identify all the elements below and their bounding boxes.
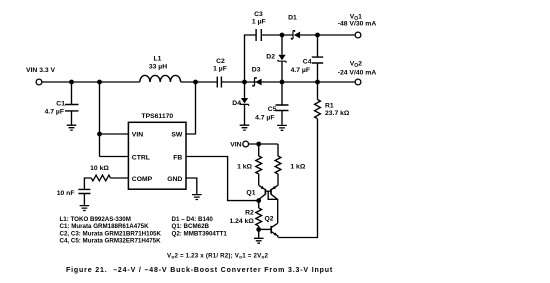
node junction FB/R2/Q1 — [256, 198, 261, 203]
svg-text:VIN: VIN — [230, 142, 241, 149]
svg-text:4.7 µF: 4.7 µF — [291, 67, 310, 74]
wire main rail from VIN to L1 — [42, 81, 140, 83]
svg-text:FB: FB — [173, 154, 182, 161]
svg-text:C2, C3: Murata GRM21BR71H105K: C2, C3: Murata GRM21BR71H105K — [60, 230, 162, 237]
terminal VIN (bias) — [243, 141, 249, 147]
svg-text:GND: GND — [167, 176, 182, 183]
svg-text:23.7 kΩ: 23.7 kΩ — [325, 110, 350, 117]
svg-text:Q2: MMBT3904TT1: Q2: MMBT3904TT1 — [172, 230, 228, 237]
capacitor 10nF — [78, 189, 90, 193]
wire VIN bias rail — [248, 143, 278, 145]
wire SW riser — [186, 82, 196, 134]
svg-text:Vo2 = 1.23 x (R1/ R2); Vo1 = 2: Vo2 = 1.23 x (R1/ R2); Vo1 = 2Vo2 — [167, 253, 269, 261]
svg-text:10 kΩ: 10 kΩ — [90, 165, 109, 172]
node junction at VIN pin — [97, 132, 102, 137]
diode D1 (schottky, pointing left) — [291, 31, 300, 39]
svg-text:1 µF: 1 µF — [252, 19, 266, 26]
svg-text:D2: D2 — [266, 54, 275, 61]
ground below GND pin — [192, 195, 202, 200]
svg-text:D4: D4 — [232, 100, 241, 107]
capacitor C4 — [312, 35, 323, 82]
svg-text:C3: C3 — [254, 11, 263, 18]
svg-text:CTRL: CTRL — [132, 154, 150, 161]
svg-text:COMP: COMP — [132, 176, 153, 183]
ground below C5 — [277, 125, 287, 130]
terminal VO1 — [355, 32, 361, 38]
node junction 4 (C2/D3/D4/riser) — [242, 80, 247, 85]
diode D2 (schottky, pointing down) — [278, 35, 286, 82]
resistor R2 — [256, 201, 262, 230]
svg-text:VIN: VIN — [132, 131, 143, 138]
svg-text:L1: L1 — [154, 56, 162, 63]
node junction D2 bottom — [280, 80, 285, 85]
wire GND pin to ground — [186, 178, 197, 194]
transistor Q2 (NPN) — [259, 223, 278, 237]
svg-text:-48 V/30 mA: -48 V/30 mA — [338, 21, 377, 28]
wire 10nF to ground — [83, 194, 85, 205]
svg-text:4.7 µF: 4.7 µF — [45, 109, 64, 116]
node junction R2/Q2 base/ground — [256, 227, 261, 232]
svg-text:33 µH: 33 µH — [149, 64, 167, 71]
svg-text:TPS61170: TPS61170 — [141, 113, 173, 120]
diode D4 (schottky, pointing down) — [240, 82, 248, 125]
svg-text:L1: TOKO B992AS-330M: L1: TOKO B992AS-330M — [60, 216, 131, 223]
inductor L1 — [140, 75, 181, 82]
ground below C1 — [67, 125, 77, 130]
capacitor C1 — [65, 82, 79, 125]
wire riser to top branch — [245, 35, 257, 82]
capacitor C5 — [276, 82, 289, 125]
svg-text:Q1: BCM62B: Q1: BCM62B — [172, 223, 210, 230]
svg-text:10 nF: 10 nF — [57, 190, 75, 197]
svg-text:R2: R2 — [245, 210, 254, 217]
resistor R1 — [278, 82, 320, 238]
node junction C4 top — [315, 33, 320, 38]
capacitor C3 — [256, 29, 261, 41]
resistor 1k right — [275, 144, 281, 185]
svg-text:1.24 kΩ: 1.24 kΩ — [229, 218, 254, 225]
svg-text:C2: C2 — [216, 58, 225, 65]
svg-text:D1: D1 — [288, 15, 297, 22]
node junction C3/D1/D2 — [280, 33, 285, 38]
svg-text:1 kΩ: 1 kΩ — [237, 164, 252, 171]
wire to ground — [258, 229, 260, 237]
wire riser to VIN/CTRL pins — [100, 82, 129, 157]
svg-text:C5: C5 — [268, 106, 277, 113]
ground below R2 — [254, 238, 264, 243]
svg-text:C4: C4 — [303, 58, 312, 65]
svg-text:VIN 3.3 V: VIN 3.3 V — [26, 67, 56, 74]
wire D1 to VO1 — [300, 34, 355, 36]
svg-text:D3: D3 — [252, 67, 261, 74]
wire C3 to D1 — [261, 34, 293, 36]
svg-text:C4, C5: Murata GRM32ER71H475K: C4, C5: Murata GRM32ER71H475K — [60, 238, 162, 245]
svg-text:D1 – D4: B140: D1 – D4: B140 — [172, 216, 214, 223]
transistor Q1 (dual PNP mirror) — [259, 185, 278, 223]
diode D3 (schottky, pointing left) — [253, 78, 262, 86]
node junction VIN-pin riser — [97, 80, 102, 85]
svg-text:C1: Murata GRM188R61A475K: C1: Murata GRM188R61A475K — [60, 223, 150, 230]
capacitor C2 — [217, 77, 221, 88]
ground below 10nF — [80, 206, 90, 211]
wire FB pin to mirror node — [186, 157, 259, 201]
node junction left 1k — [256, 142, 261, 147]
svg-text:Figure 21. –24-V / –48-V Buck: Figure 21. –24-V / –48-V Buck-Boost Conv… — [66, 267, 333, 274]
svg-text:C1: C1 — [56, 101, 65, 108]
resistor 1k left — [256, 144, 262, 185]
svg-text:1 kΩ: 1 kΩ — [290, 164, 305, 171]
node junction SW riser — [193, 80, 198, 85]
terminal VIN 3.3 V — [36, 79, 42, 85]
svg-text:Q2: Q2 — [265, 216, 274, 223]
IC U1 TPS61170 box — [128, 122, 186, 189]
ground below D4 — [240, 125, 250, 130]
node junction C1 — [69, 80, 74, 85]
terminal VO2 — [355, 79, 361, 85]
wire L1 to C2 — [181, 81, 218, 83]
node junction C4 bottom / R1 — [315, 80, 320, 85]
svg-text:4.7 µF: 4.7 µF — [255, 114, 274, 121]
svg-text:1 µF: 1 µF — [213, 66, 227, 73]
resistor 10k at COMP — [84, 175, 128, 189]
svg-text:VO2: VO2 — [350, 60, 362, 69]
wire C2 to D3 — [221, 81, 355, 83]
svg-text:SW: SW — [171, 131, 183, 138]
svg-text:Q1: Q1 — [246, 189, 255, 196]
svg-text:-24 V/40 mA: -24 V/40 mA — [338, 69, 377, 76]
svg-text:R1: R1 — [325, 103, 334, 110]
